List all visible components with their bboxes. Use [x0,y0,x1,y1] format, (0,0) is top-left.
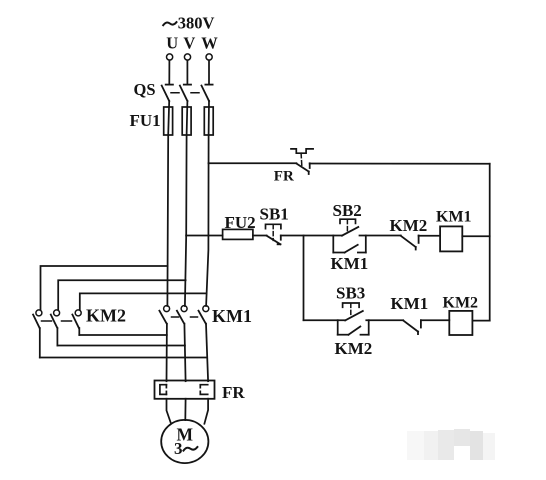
wire KM2 interlock to coil KM1 [419,235,441,237]
wire crossover tap phase 1 [41,266,168,310]
wire crossover A KM2 pole3 to motor line 1 [79,334,167,336]
wire crossover tap phase 2 [58,280,185,309]
contactor KM1 linkage dashed [172,316,199,318]
start button SB2 plunger dashed [346,220,348,232]
switch QS pole 1 [162,85,173,101]
svg-text:U: U [166,34,178,53]
svg-text:SB3: SB3 [336,284,365,303]
aux contact KM2 branch right [361,334,369,336]
wire motor line 1 [166,324,168,382]
wire control tap W to FR contact [209,162,297,164]
svg-text:V: V [183,34,195,53]
wire rung2 left [304,319,346,321]
interlock contact KM2 NC [401,236,419,250]
wire crossover B KM2 pole2 to motor line 2 [57,345,184,347]
svg-text:380V: 380V [178,14,215,33]
svg-text:KM1: KM1 [331,254,369,273]
wire coil KM2 to right rail [472,320,489,322]
contactor KM2 main pole 1 [33,310,42,358]
aux contact KM1 seal-in bracket left [332,236,334,253]
wire right rail [489,164,491,321]
svg-text:SB1: SB1 [260,205,289,224]
switch QS pole 3 [202,85,213,101]
wire U terminal to QS [168,60,170,84]
wire FU2 to SB1 [253,235,267,237]
svg-text:3: 3 [174,439,183,458]
motor M [161,420,208,463]
contactor KM2 main pole 2 [51,310,60,346]
start button SB3 NO contact blade [345,311,363,320]
terminal U [167,54,173,60]
coil KM1 [440,226,462,251]
wire crossover tap phase 3 [80,293,207,309]
watermark [407,429,495,460]
wire V terminal to QS [186,60,188,84]
node branch junction [303,236,305,321]
fuse FU1 phase 1 [164,107,173,135]
start button SB3 plunger dashed [350,303,352,315]
svg-text:W: W [201,34,218,53]
stop button SB1 plunger dashed [272,225,274,241]
aux contact KM2 branch [338,334,349,336]
contactor KM2 linkage dashed [42,320,72,322]
wire motor line 2 [184,324,185,382]
aux contact KM2 bracket left [337,320,339,335]
svg-text:KM2: KM2 [443,295,479,312]
wire W terminal to QS [208,60,210,84]
thermal relay FR plunger dashed [300,153,303,165]
thermal relay FR NC contact [296,163,309,174]
terminal V [184,54,190,60]
supply label ~380V [163,22,176,25]
wire phase 1 QS to KM1 contact [167,101,169,306]
svg-text:KM1: KM1 [391,294,429,313]
stop button SB1 cap [266,224,281,228]
svg-text:KM2: KM2 [86,306,126,326]
wire FR contact to right rail [310,163,490,165]
wire FR heater to motor 2 [184,399,186,420]
thermal relay FR heater element right [200,385,207,395]
svg-text:KM2: KM2 [390,216,428,235]
contactor KM1 main pole 3 [199,306,209,324]
wire KM1 interlock to coil KM2 [421,319,449,321]
aux contact KM2 bracket right [368,320,370,335]
svg-text:FR: FR [274,169,294,185]
svg-text:KM2: KM2 [335,339,373,358]
coil KM2 [449,311,472,335]
contactor KM1 main pole 1 [159,306,169,324]
interlock contact KM1 NC [403,320,421,334]
wire motor line 3 [206,324,208,382]
svg-text:KM1: KM1 [436,208,472,225]
wire FR heater to motor 3 [204,399,208,424]
switch QS pole 2 [180,85,191,101]
wire SB1 to SB2 [281,235,342,237]
fuse FU1 phase 3 [204,107,213,135]
fuse FU2 [223,229,253,239]
aux contact KM1 seal-in branch right [358,252,366,254]
wire coil KM1 to right rail [462,235,489,237]
aux contact KM1 seal-in NO blade [345,245,358,253]
aux contact KM1 seal-in bracket right [365,236,367,253]
aux contact KM1 seal-in branch [333,252,344,254]
wire FR heater to motor 1 [167,399,171,423]
svg-text:QS: QS [134,80,156,99]
svg-text:FR: FR [222,383,245,402]
fuse FU1 phase 2 [182,107,191,135]
start button SB2 cap [340,219,356,223]
stop button SB1 NC contact [267,236,281,245]
switch QS linkage dashed [171,92,200,94]
svg-text:SB2: SB2 [333,201,362,220]
contactor KM2 main pole 3 [72,310,81,335]
wire control tap V to FU2 [186,235,223,237]
thermal relay FR heater element left [160,385,167,395]
contactor KM1 main pole 2 [177,306,187,324]
start button SB2 NO contact blade [342,227,358,236]
wire phase 2 QS to KM1 contact [185,101,188,306]
start button SB3 cap [343,303,360,307]
wire SB3 to KM1 interlock [366,319,403,321]
terminal W [206,54,212,60]
thermal relay FR heater block [155,381,215,399]
wire crossover C KM2 pole1 to motor line 3 [40,357,207,359]
aux contact KM2 NO blade [348,327,360,335]
svg-text:FU1: FU1 [130,111,161,130]
wire SB2 to KM2 interlock [360,235,401,237]
wire phase 3 QS to KM1 contact [206,101,209,306]
thermal relay FR release element [291,149,313,153]
svg-text:KM1: KM1 [212,306,252,326]
